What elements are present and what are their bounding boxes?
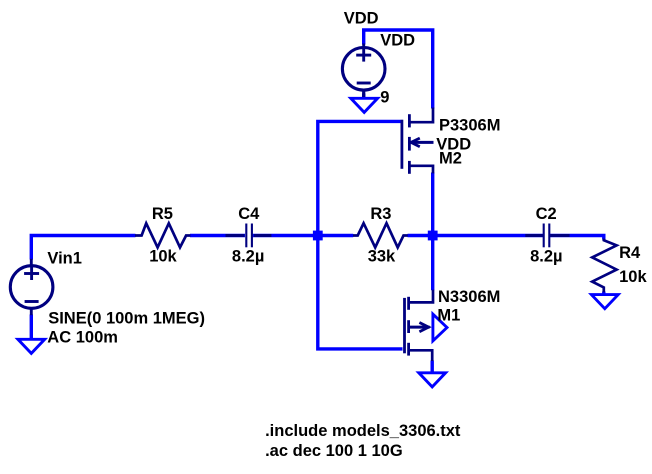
svg-text:9: 9 bbox=[380, 89, 389, 107]
svg-text:10k: 10k bbox=[619, 268, 647, 286]
svg-text:VDD: VDD bbox=[380, 32, 415, 50]
wire R4 bottom to ground bbox=[602, 292, 605, 296]
transistor M1 NMOS drain stub and pin (top) bbox=[409, 290, 433, 303]
wire VDD source bottom to ground bbox=[362, 94, 365, 99]
svg-text:.ac dec 100 1 10G: .ac dec 100 1 10G bbox=[265, 442, 403, 460]
transistor M1 NMOS channel segments bbox=[407, 297, 410, 356]
svg-text:8.2µ: 8.2µ bbox=[232, 248, 264, 266]
resistor R3 bbox=[353, 223, 408, 247]
resistor R5 bbox=[135, 223, 190, 247]
svg-text:N3306M: N3306M bbox=[438, 288, 500, 306]
wire NMOS source to ground bbox=[431, 361, 434, 374]
svg-text:SINE(0 100m 1MEG): SINE(0 100m 1MEG) bbox=[48, 309, 205, 327]
transistor M2 PMOS bulk lead and arrow (tip at channel) bbox=[411, 138, 434, 147]
svg-text:8.2µ: 8.2µ bbox=[530, 248, 562, 266]
resistor R4 (vertical) bbox=[592, 239, 616, 293]
ground below R4 bbox=[591, 295, 618, 309]
wire main line segment D (R3 to C2, through junction) bbox=[408, 234, 544, 237]
transistor M2 PMOS channel segments bbox=[408, 114, 411, 174]
svg-text:R5: R5 bbox=[152, 205, 173, 223]
svg-text:.include models_3306.txt: .include models_3306.txt bbox=[265, 422, 461, 440]
transistor M1 NMOS bulk lead and arrow (tip pointing right) bbox=[410, 323, 430, 332]
svg-text:R3: R3 bbox=[370, 205, 391, 223]
transistor M2 PMOS gate bar bbox=[400, 120, 403, 169]
capacitor C4 bbox=[226, 224, 272, 248]
ground below VDD source bbox=[351, 98, 378, 112]
svg-text:M2: M2 bbox=[439, 149, 462, 167]
wire Vin1 bottom to ground bbox=[30, 315, 33, 340]
svg-text:R4: R4 bbox=[619, 244, 641, 262]
wire main line segment C (C4 to R3, through junction) bbox=[253, 234, 354, 237]
wire main line segment E (C2 to R4 corner) bbox=[550, 236, 604, 240]
junction node at PMOS-NMOS drain / main line bbox=[428, 231, 438, 241]
svg-text:10k: 10k bbox=[149, 248, 177, 266]
ground at NMOS M1 bulk (rotated, pointing right) bbox=[433, 314, 447, 341]
transistor M1 NMOS gate bar bbox=[403, 298, 406, 353]
wire main line segment B (R5 to C4) bbox=[190, 234, 245, 237]
svg-text:33k: 33k bbox=[368, 248, 396, 266]
transistor M2 PMOS drain stub and pin (bottom) bbox=[409, 166, 433, 174]
svg-text:M1: M1 bbox=[437, 307, 460, 325]
transistor M1 NMOS source stub and pin (bottom) bbox=[409, 350, 433, 361]
wire VDD top rail (source top to PMOS source) bbox=[364, 30, 433, 109]
svg-text:C4: C4 bbox=[238, 205, 260, 223]
svg-text:Vin1: Vin1 bbox=[47, 249, 82, 267]
wire PMOS drain down through junction to NMOS drain bbox=[431, 173, 434, 291]
voltage source Vin1 (circle with plus/minus and pins) bbox=[10, 259, 53, 315]
svg-text:C2: C2 bbox=[536, 205, 557, 223]
wire Vin1 top to main line segment A bbox=[31, 236, 135, 260]
wire gate loop (PMOS gate - left vertical - NMOS gate) bbox=[318, 121, 403, 349]
svg-text:AC 100m: AC 100m bbox=[47, 328, 118, 346]
svg-text:VDD: VDD bbox=[344, 9, 379, 27]
ground below NMOS M1 source bbox=[419, 373, 446, 387]
voltage source VDD (circle with plus/minus and pins) bbox=[342, 44, 385, 98]
transistor M2 PMOS source stub and pin (top) bbox=[409, 108, 433, 123]
svg-text:P3306M: P3306M bbox=[439, 116, 500, 134]
capacitor C2 bbox=[525, 224, 569, 248]
ground below Vin1 bbox=[18, 339, 45, 353]
junction node at gate loop / main line bbox=[313, 231, 323, 241]
